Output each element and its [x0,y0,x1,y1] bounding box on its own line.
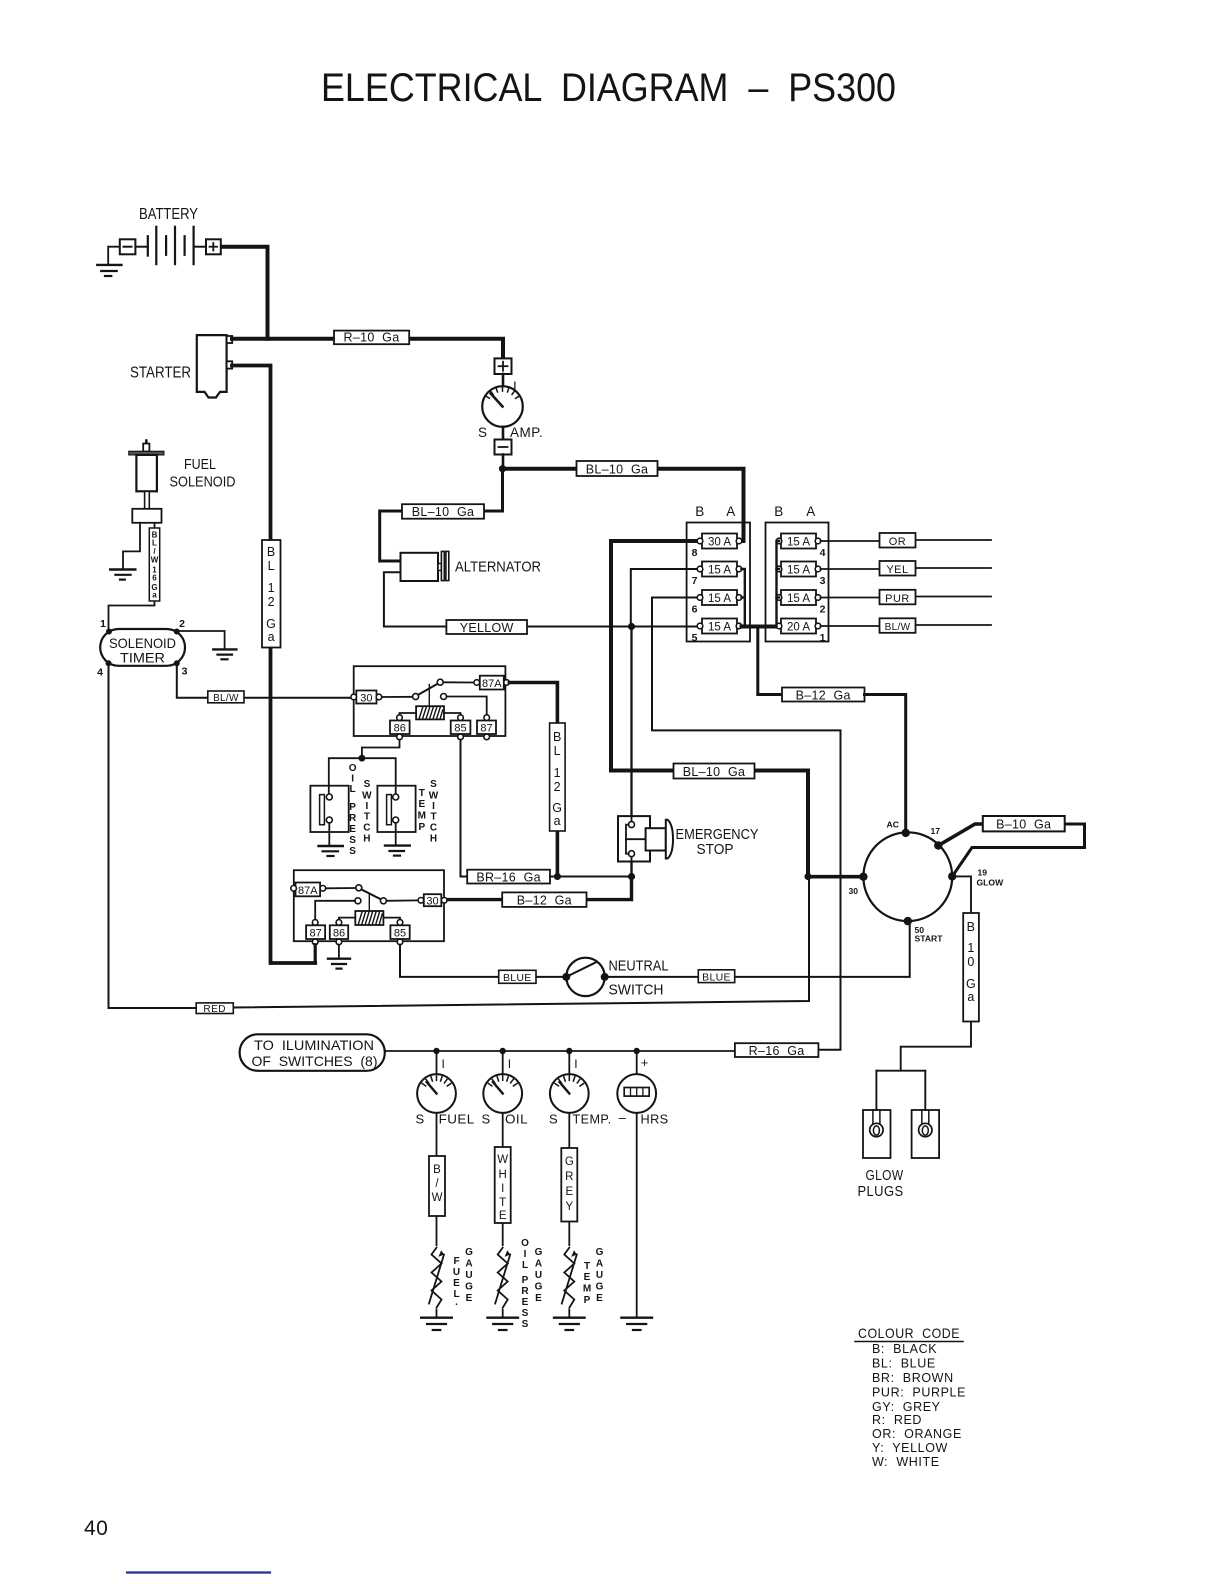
svg-text:A: A [596,1259,603,1270]
ground timer [213,649,236,659]
wire ammeter branch to alternator (BL-10 Ga) [380,469,503,561]
wire fuse7 B down to yellow node [631,569,698,627]
svg-text:S: S [415,1112,424,1127]
wire B-12 tap from fuse link down [758,627,782,695]
svg-text:.: . [455,1297,458,1308]
svg-text:19: 19 [978,868,988,878]
node ammeter junction [499,465,506,472]
svg-text:S: S [481,1112,490,1127]
svg-text:I: I [501,1183,504,1195]
svg-text:YELLOW: YELLOW [460,621,514,635]
svg-text:G: G [966,977,976,991]
text TEMP GAUGE vertical [583,1247,604,1306]
svg-text:E: E [596,1293,603,1304]
relay R1 contact 87 [441,694,447,700]
svg-text:E: E [584,1272,591,1283]
svg-text:A: A [806,504,816,519]
svg-text:85: 85 [454,723,466,735]
svg-text:W: W [151,556,159,565]
svg-text:1: 1 [554,766,561,780]
wire fuse B bus box2 [777,541,780,627]
label BL/W right [880,618,916,633]
label BL/W left [208,691,244,704]
svg-text:R: RED: R: RED [872,1413,922,1427]
svg-text:E: E [565,1186,573,1198]
wire relay1 86 to switches split [362,740,400,759]
svg-text:Y: YELLOW: Y: YELLOW [872,1441,948,1455]
svg-text:0: 0 [967,955,974,969]
svg-text:E: E [535,1293,542,1304]
svg-text:GLOW: GLOW [866,1167,904,1184]
glow plug left [863,1110,891,1158]
svg-text:G: G [596,1282,604,1293]
wire relay2 86 to ground [338,945,340,958]
ammeter AMP [478,374,543,469]
ammeter plus box [495,358,512,374]
wire to oil press switch [329,758,362,794]
battery BATTERY [120,206,221,264]
relay R2 armature [326,887,356,889]
svg-text:L: L [268,559,275,573]
svg-text:S: S [522,1319,529,1330]
svg-text:1: 1 [268,581,275,595]
svg-text:L: L [554,744,561,758]
svg-text:B–12 Ga: B–12 Ga [796,688,851,702]
wire keyswitch 17 to B-10 Ga and back to 19 [938,824,983,846]
svg-text:I: I [513,379,517,394]
svg-text:G: G [465,1282,473,1293]
wire fuse3 A to YEL [821,568,992,569]
relay R1 terminal 87 [477,715,496,740]
fuel solenoid FUEL SOLENOID [129,441,236,523]
wire relay2 85 to neutral switch (BLUE) [400,945,563,977]
svg-text:YEL: YEL [886,564,908,576]
svg-text:BL/W: BL/W [213,693,239,704]
svg-text:AMP.: AMP. [510,425,543,440]
text OIL PRESS SWITCH vertical [349,763,372,857]
relay R2 terminal 87A [291,883,326,897]
svg-text:S: S [478,425,488,440]
starter STARTER [130,335,232,397]
node yellow junction [628,623,635,630]
svg-text:4: 4 [820,547,826,559]
svg-text:R: R [349,813,357,824]
wire fuse4 A to OR [821,540,992,541]
svg-text:S: S [522,1308,529,1319]
svg-text:E: E [522,1297,529,1308]
svg-text:E: E [453,1278,460,1289]
svg-text:U: U [465,1270,472,1281]
svg-text:R–10 Ga: R–10 Ga [344,331,400,345]
svg-text:PLUGS: PLUGS [858,1183,904,1200]
svg-text:G: G [596,1247,604,1258]
svg-text:87A: 87A [482,678,502,690]
relay R1 terminal 86 [390,715,410,740]
oil pressure switch [310,786,348,845]
relay R2 terminal 85 [390,920,409,945]
svg-text:W: W [429,791,439,802]
svg-text:86: 86 [333,928,345,940]
svg-text:B: B [774,504,784,519]
gauge temp [550,1074,589,1113]
svg-text:SOLENOID: SOLENOID [170,474,236,491]
svg-text:NEUTRAL: NEUTRAL [609,958,669,975]
svg-text:PUR: PURPLE: PUR: PURPLE [872,1386,966,1400]
wire oil gauge down to sender [502,1113,504,1317]
label B-12 Ga first [782,688,865,703]
wire to temp switch [362,758,396,794]
svg-text:30: 30 [360,692,372,704]
svg-text:40: 40 [84,1517,108,1540]
svg-text:OR: ORANGE: OR: ORANGE [872,1427,962,1441]
illumination bus stadium TO ILUMINATION OF SWITCHES [240,1034,385,1071]
svg-text:S: S [349,846,356,857]
ground temp sender [554,1318,585,1330]
svg-text:B: B [695,504,705,519]
ground relay2 86 [328,959,350,969]
label BLUE left [499,970,536,984]
wire ES node to relay2 30 (B-12 Ga) [448,877,632,900]
svg-text:T: T [499,1197,506,1209]
svg-text:GLOW: GLOW [977,878,1005,888]
node bus tap oil [500,1048,506,1054]
relay R1 [351,666,510,740]
label B-12 Ga second [502,892,586,907]
text S FUEL S OIL S TEMP - HRS [415,1110,668,1127]
svg-text:B: B [967,920,976,934]
svg-text:TO ILUMINATION: TO ILUMINATION [254,1037,374,1053]
ground hour meter [621,1318,652,1330]
wire fuse8 B to keyswitch 30 (BL-10 Ga) [611,541,808,877]
label BL/W 16 Ga vertical tiny [149,528,159,601]
svg-text:30: 30 [849,886,859,896]
svg-text:P: P [349,802,356,813]
svg-text:F: F [453,1256,459,1267]
relay R2 [291,870,447,945]
colour code table [858,1325,966,1469]
svg-text:BL–10 Ga: BL–10 Ga [412,505,474,519]
fuse F3 15A [776,562,825,588]
svg-text:M: M [418,811,426,822]
svg-text:T: T [364,812,370,823]
svg-text:6: 6 [152,574,157,583]
wire B-12 to keyswitch AC [865,695,906,833]
svg-text:5: 5 [692,632,698,644]
svg-text:a: a [554,814,561,828]
svg-text:A: A [726,504,736,519]
node key 30 junction [804,873,811,880]
wire node to keyswitch 30 [808,875,863,879]
svg-text:a: a [967,990,974,1004]
fuse F2 15A [776,590,825,616]
svg-text:3: 3 [820,575,826,587]
emergency stop switch [618,816,759,861]
ground temp switch [385,846,410,856]
label YELLOW [446,620,527,635]
label R-16 Ga [735,1043,819,1058]
svg-text:FUEL: FUEL [184,456,216,473]
svg-text:1: 1 [100,618,106,630]
svg-text:6: 6 [692,604,698,616]
relay R1 link [428,685,430,707]
svg-text:87A: 87A [298,885,318,897]
svg-text:EMERGENCY: EMERGENCY [676,827,759,843]
solenoid timer SOLENOID TIMER [97,618,188,679]
svg-text:S: S [430,779,437,790]
svg-text:G: G [535,1247,543,1258]
svg-text:Y: Y [565,1201,573,1213]
svg-text:B: B [433,1164,441,1176]
wire fuse A bus box1 [742,569,745,627]
svg-text:B–10 Ga: B–10 Ga [996,818,1051,832]
svg-text:I: I [508,1057,511,1071]
svg-text:BL: BLUE: BL: BLUE [872,1357,936,1371]
text OIL PRESS GAUGE vertical [521,1238,543,1330]
label YEL [880,561,916,576]
relay R2 coil [355,911,383,925]
svg-text:E: E [466,1293,473,1304]
relay R2 contact 87 [355,898,361,904]
svg-text:BLUE: BLUE [503,972,532,984]
svg-text:H: H [363,834,370,845]
relay R2 terminal 30 [418,894,447,907]
svg-text:a: a [152,591,157,600]
fuse panel right box [766,504,829,644]
label BL 12 Ga vertical (starter line) [262,540,281,648]
svg-text:RED: RED [203,1004,226,1015]
relay R2 terminal 87 [306,920,325,945]
label BL 12 Ga vertical relay [550,723,566,831]
svg-text:T: T [430,812,436,823]
svg-text:I: I [351,774,354,785]
svg-text:B: B [553,730,562,744]
wire fuel solenoid right to timer pin1 [109,523,155,631]
svg-text:U: U [596,1270,603,1281]
wire fuse6 B to illumination R-16 riser [652,598,841,1050]
svg-text:15 A: 15 A [708,593,731,605]
svg-text:L: L [350,784,356,795]
label B 10 Ga vertical [963,913,979,1022]
svg-text:HRS: HRS [641,1112,669,1127]
text TEMP SWITCH vertical [418,779,439,845]
node bus tap hrs [634,1048,640,1054]
wire hour meter to ground [636,1113,638,1317]
svg-text:1: 1 [967,941,974,955]
svg-text:U: U [535,1270,542,1281]
label B/W vertical [429,1156,445,1216]
svg-text:BLUE: BLUE [702,971,731,983]
svg-text:S: S [549,1112,558,1127]
svg-text:8: 8 [692,547,698,559]
svg-text:ALTERNATOR: ALTERNATOR [455,559,541,576]
ground oil sender [487,1318,518,1330]
label OR [880,533,916,548]
temp switch [377,786,415,845]
svg-text:15 A: 15 A [787,565,810,577]
wire BR-16 to ES node [550,876,632,878]
fuse F6 15A [692,590,742,616]
label GREY vertical [561,1148,577,1222]
svg-text:86: 86 [394,723,406,735]
wire battery minus to ground [108,247,120,264]
svg-text:–: – [619,1110,627,1125]
label RED [196,1003,233,1015]
svg-text:+: + [641,1055,649,1070]
svg-text:P: P [418,822,425,833]
svg-text:STARTER: STARTER [130,365,191,382]
relay R1 coil [416,706,444,719]
svg-text:87: 87 [309,928,321,940]
wire starter mid tab to BL-12 vertical down to relay2 87 [232,366,315,964]
node ES junction [628,873,635,880]
wire fuse5A to fuse1B link [742,625,777,629]
svg-text:E: E [499,1210,507,1222]
label PUR [880,590,916,605]
svg-text:W: W [362,791,372,802]
svg-text:ELECTRICAL DIAGRAM – PS300: ELECTRICAL DIAGRAM – PS300 [321,66,896,110]
svg-text:G: G [535,1282,543,1293]
label WHITE vertical [495,1147,511,1223]
svg-text:G: G [552,801,562,815]
svg-text:I: I [366,801,369,812]
svg-text:START: START [915,934,944,944]
relay R1 armature [382,696,413,698]
label R-10 Ga [334,331,409,345]
relay R1 terminal 30 [351,691,382,705]
svg-text:PUR: PUR [885,593,910,605]
svg-text:BATTERY: BATTERY [139,206,198,223]
svg-text:85: 85 [394,928,406,940]
wire relay1 85 to BR-16 [461,740,468,877]
svg-text:AC: AC [887,820,899,830]
label B-10 Ga [983,816,1065,832]
svg-text:A: A [535,1259,542,1270]
svg-text:B: BLACK: B: BLACK [872,1342,937,1356]
wire fuel gauge down to sender [436,1113,438,1317]
relay R2 terminal 86 [330,920,348,945]
svg-text:H: H [430,834,437,845]
svg-text:S: S [364,779,371,790]
svg-text:I: I [574,1057,577,1071]
svg-text:15 A: 15 A [708,565,731,577]
resistor temp sender [562,1246,577,1309]
relay R2 link [368,894,370,912]
svg-text:R: R [521,1286,529,1297]
svg-text:W: W [497,1154,508,1166]
fuse F4 15A [776,534,825,560]
svg-text:STOP: STOP [697,842,734,858]
svg-text:2: 2 [554,780,561,794]
svg-text:4: 4 [97,667,103,679]
ground battery [97,265,121,276]
svg-text:U: U [453,1267,460,1278]
fuse F7 15A [692,562,742,588]
svg-text:W: W [432,1192,443,1204]
svg-text:3: 3 [182,666,188,678]
svg-text:P: P [522,1275,529,1286]
label BL-10 Ga first [577,461,658,477]
svg-text:30 A: 30 A [708,537,731,549]
gauge hour meter [617,1074,656,1113]
wire drops to gauges [437,1051,637,1074]
svg-text:W: WHITE: W: WHITE [872,1455,940,1469]
label BR-16 Ga [467,870,550,885]
relay R1 coil wires [400,713,417,715]
wire relay2 87 stub to BL12 [314,945,317,963]
relay R1 terminal 87A [474,676,509,690]
svg-text:BL–10 Ga: BL–10 Ga [586,463,648,477]
MAIN DIAGRAM [97,206,743,963]
svg-text:COLOUR CODE: COLOUR CODE [858,1325,960,1341]
wire temp gauge down to sender [568,1113,570,1317]
wire timer pin4 to RED line and key 30 node [109,663,197,1008]
svg-text:B–12 Ga: B–12 Ga [517,893,572,907]
wire timer pin2 to ground [177,631,225,648]
svg-text:BR: BROWN: BR: BROWN [872,1371,954,1385]
svg-text:a: a [268,630,275,644]
svg-text:M: M [583,1284,591,1295]
svg-text:G: G [266,617,276,631]
svg-text:BL/W: BL/W [885,622,911,633]
svg-text:OR: OR [889,536,907,548]
svg-text:TIMER: TIMER [120,650,165,666]
node bus tap temp [566,1048,572,1054]
relay R2 coil wires [339,918,355,920]
glow plug right [912,1110,940,1158]
svg-text:G: G [465,1247,473,1258]
svg-text:T: T [584,1261,590,1272]
text FUEL GAUGE vertical [453,1247,473,1308]
svg-text:C: C [363,823,370,834]
svg-text:B: B [267,545,276,559]
fuse F1 20A [776,619,825,645]
svg-text:G: G [565,1156,574,1168]
fuse F5 15A [692,619,742,645]
svg-text:O: O [521,1238,529,1249]
node switch split [359,755,366,762]
wire ES bottom to node [630,862,632,877]
svg-text:BR–16 Ga: BR–16 Ga [476,870,541,884]
wire illumination bus [385,1050,735,1052]
wire alternator to fuse5 B (YELLOW line) [384,572,698,626]
svg-text:S: S [349,835,356,846]
text GLOW PLUGS [858,1167,904,1200]
svg-text:C: C [430,823,437,834]
wire ammeter to fuse8 A (BL-10 Ga) [503,469,744,541]
svg-text:15 A: 15 A [787,593,810,605]
gauge fuel [417,1074,456,1113]
wire fuse1 A to BL/W [821,625,992,626]
wire fuse2 A to PUR [821,597,992,598]
label BLUE right [698,970,734,984]
ground oil switch [319,846,343,856]
svg-text:E: E [349,824,356,835]
resistor fuel sender [429,1246,444,1309]
alternator ALTERNATOR [401,551,542,581]
svg-text:2: 2 [268,595,275,609]
svg-text:15 A: 15 A [787,537,810,549]
svg-text:A: A [465,1259,472,1270]
bottom blue rule [127,1571,270,1573]
svg-text:2: 2 [820,604,826,616]
svg-text:20 A: 20 A [787,622,810,634]
svg-text:L: L [522,1260,528,1271]
svg-text:R: R [565,1171,573,1183]
svg-text:17: 17 [931,826,941,836]
svg-text:SWITCH: SWITCH [609,982,664,999]
svg-text:30: 30 [426,895,438,907]
wire relay1 87A to BR-16 node (BL 12 Ga) [509,683,557,877]
